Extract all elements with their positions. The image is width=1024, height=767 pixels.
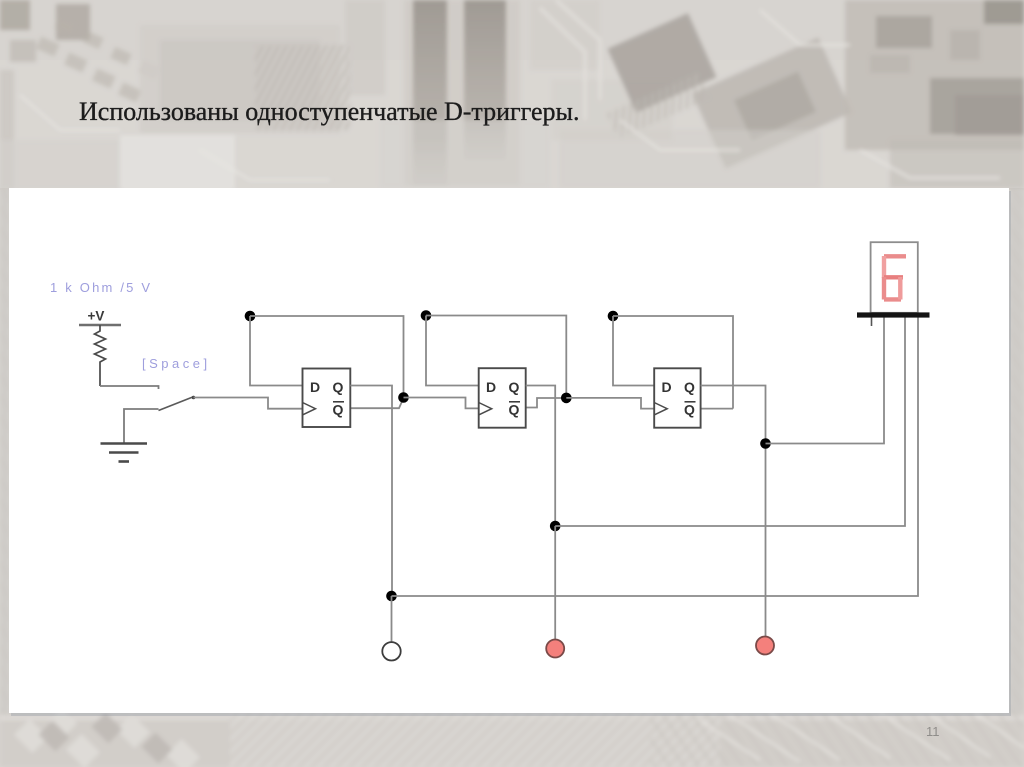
wire U2 Q down to indicator	[554, 526, 556, 641]
D flip-flop U1	[303, 369, 351, 428]
svg-text:1 k Ohm /5 V: 1 k Ohm /5 V	[50, 280, 152, 295]
svg-text:D: D	[662, 379, 672, 395]
wire Q-bar of U3	[701, 408, 733, 410]
display stub pin	[871, 318, 873, 327]
wire node G down to indicator	[391, 596, 393, 642]
seven-segment display U4	[857, 242, 930, 326]
display base black bar	[857, 312, 930, 317]
svg-text:Q: Q	[684, 401, 695, 417]
wire node D3 down to D input of U3	[613, 316, 654, 386]
digit 6 segment c (lower right)	[898, 277, 902, 300]
wire Q-bar of U2 up to node F	[526, 398, 567, 408]
svg-text:[Space]: [Space]	[142, 356, 211, 371]
node A junction dot	[245, 311, 256, 322]
node E junction dot	[760, 438, 771, 449]
wire Q of U2 down to mid node	[526, 386, 556, 527]
mid node junction dot	[550, 521, 561, 532]
svg-text:Q: Q	[509, 401, 520, 417]
resistor R1 1 kOhm	[95, 325, 106, 386]
svg-text:+V: +V	[88, 309, 105, 324]
probe indicator white (Q0)	[382, 642, 400, 660]
digit 6 segment e (lower left)	[882, 277, 886, 300]
wire feedback loop node A to node B	[250, 316, 404, 398]
svg-text:D: D	[310, 379, 320, 395]
D flip-flop U2	[479, 368, 526, 428]
wire node E to display pin 1	[766, 318, 885, 444]
digit 6 segment a (top)	[884, 254, 906, 258]
svg-text:Q: Q	[509, 379, 520, 395]
wire resistor to switch top contact	[100, 386, 159, 389]
node C junction dot	[421, 310, 432, 321]
svg-text:Q: Q	[333, 379, 344, 395]
label key "[Space]"	[142, 356, 211, 371]
node F junction dot	[561, 393, 572, 404]
wire node F to FF3 clock	[566, 398, 654, 409]
probe indicator red (Q1)	[546, 640, 564, 658]
node G junction dot	[386, 591, 397, 602]
wire Q of U3 down through node E to indicator	[701, 386, 766, 638]
ground	[101, 444, 148, 462]
wire feedback loop node C to node F	[426, 316, 566, 398]
switch S1 lever	[159, 396, 196, 411]
wire Q-bar of U1 up to node B	[350, 398, 403, 408]
wire mid node to display pin 2	[555, 318, 905, 527]
svg-text:Q: Q	[333, 401, 344, 417]
node B junction dot	[398, 392, 409, 403]
probe indicator red (Q2)	[756, 637, 774, 655]
wire switch bottom contact to ground	[124, 409, 159, 443]
label: resistor value and supply "1 k Ohm /5 V"	[50, 280, 152, 295]
wire node A down to D input of U1	[250, 316, 303, 386]
wire node B to FF2 clock	[404, 398, 479, 409]
digit 6 segment g (middle)	[884, 275, 903, 279]
D flip-flop U3	[654, 368, 700, 427]
wire Q of U1 down to node G	[350, 386, 392, 597]
power supply +V	[79, 309, 121, 326]
wire node G to display pin 3 (bottom rail)	[392, 318, 919, 597]
svg-text:D: D	[486, 379, 496, 395]
node D3 junction dot	[608, 311, 619, 322]
wire node C down to D input of U2	[426, 316, 479, 386]
wire feedback loop node D3 to Q-bar of U3	[613, 316, 733, 409]
wire switch pole to FF1 clock	[194, 398, 303, 409]
svg-text:Q: Q	[684, 379, 695, 395]
digit 6 segment d (bottom)	[884, 297, 901, 301]
digit 6 segment f (upper left)	[882, 256, 886, 278]
